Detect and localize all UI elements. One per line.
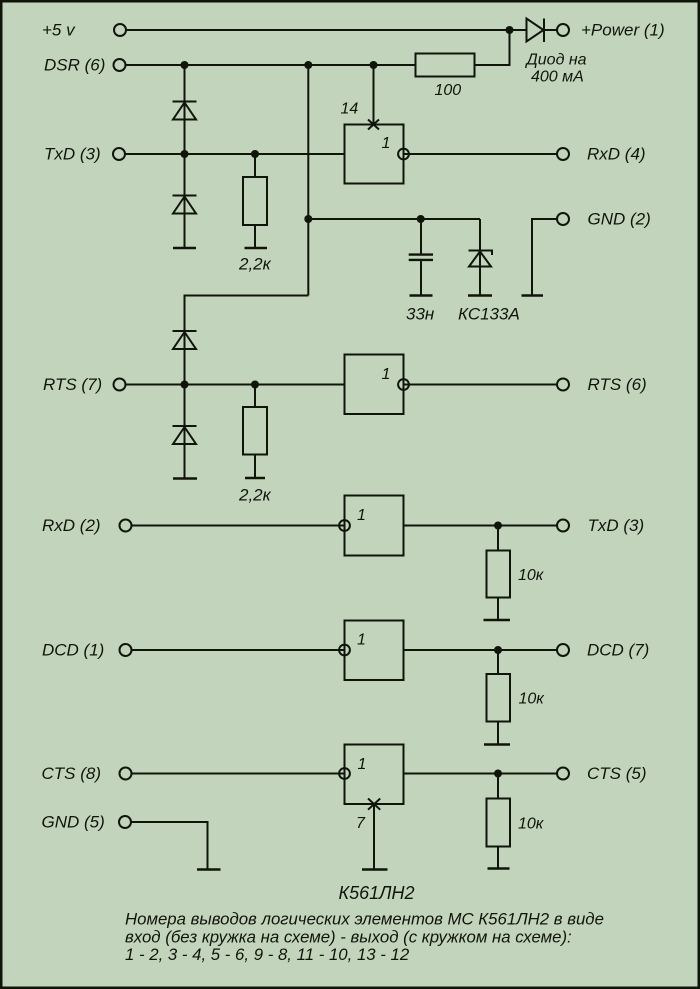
svg-text:вход (без кружка на схеме) - в: вход (без кружка на схеме) - выход (с кр… [125, 928, 572, 947]
op-amp gate U1.4 box [345, 621, 404, 681]
wire TxD to resistor R2 [254, 154, 256, 177]
wire capacitor C1 to ground [420, 261, 422, 295]
terminal +Power(1) [557, 24, 569, 36]
resistor 100 [416, 54, 475, 77]
ground bar GND(5) [197, 868, 221, 871]
svg-text:33н: 33н [406, 305, 435, 324]
svg-text:DSR (6): DSR (6) [44, 56, 105, 75]
terminal RxD(2) [120, 520, 132, 532]
resistor 2,2k lower [243, 407, 267, 455]
resistor 2,2k upper [243, 177, 267, 225]
terminal DCD(7) [557, 644, 569, 656]
terminal RxD(4) [557, 148, 569, 160]
svg-text:Диод на: Диод на [525, 52, 587, 69]
gate U1.3 input circle [339, 520, 350, 531]
op-amp gate U1.1 box [345, 125, 404, 184]
svg-text:CTS (8): CTS (8) [42, 764, 102, 783]
terminal TxD(3) right [557, 520, 569, 532]
ground bar under R5 [484, 743, 510, 746]
ground bar under R2 [245, 247, 268, 250]
wire GND(5) to ground [132, 822, 208, 869]
gate U1.5 pin7 cross [368, 799, 380, 810]
svg-text:1: 1 [357, 632, 366, 649]
terminal GND(5) [119, 816, 131, 828]
diode D5 power [527, 19, 545, 43]
ground bar under R3 [245, 477, 265, 480]
ground bar under R4 [484, 619, 511, 622]
wire through diode D3 to RTS [184, 331, 186, 385]
wire GND(2) terminal [532, 219, 557, 295]
node TxD-R2 [251, 150, 259, 158]
wire DCD(1) line [132, 649, 345, 651]
wire gate3 output to TxD(3) [404, 525, 557, 527]
wire RTS through diode D4 to ground [184, 385, 186, 479]
wire TxD line [126, 153, 345, 155]
gate U1.2 output circle [398, 379, 409, 390]
terminal CTS(8) [120, 768, 132, 780]
terminal TxD(3) left [113, 148, 125, 160]
wire pin14 riser [373, 65, 375, 125]
wire resistor 100 to +5v riser [475, 30, 510, 65]
svg-text:400 мА: 400 мА [531, 69, 584, 86]
wire resistor R2 to ground [254, 225, 256, 248]
svg-text:14: 14 [341, 101, 359, 118]
ground bar pin7 [362, 868, 388, 871]
svg-text:2,2к: 2,2к [238, 255, 272, 274]
terminal GND(2) [557, 213, 569, 225]
wire junction to resistor R4 [497, 526, 499, 551]
terminal DSR(6) [114, 59, 126, 71]
wire diode cathode to +Power [544, 29, 557, 31]
wire gate5 output to CTS(5) [404, 773, 557, 775]
svg-text:+Power (1): +Power (1) [581, 21, 665, 40]
ground bar under D2 [173, 247, 196, 250]
gate U1.4 input circle [339, 645, 350, 656]
capacitor C1 33н [409, 255, 433, 260]
node rail-riser [304, 215, 312, 223]
wire RxD(2) line [132, 525, 345, 527]
svg-text:TxD (3): TxD (3) [588, 516, 645, 535]
ground bar under zener [468, 294, 492, 297]
terminal CTS(5) [557, 768, 569, 780]
svg-text:100: 100 [435, 82, 462, 99]
node TxD-D1 [181, 150, 189, 158]
wire RTS to resistor R3 [254, 385, 256, 408]
svg-text:TxD (3): TxD (3) [44, 145, 101, 164]
wire resistor R3 to ground [254, 455, 256, 478]
terminal RTS(7) [114, 379, 126, 391]
terminal circles [113, 24, 569, 828]
svg-text:RxD (2): RxD (2) [42, 516, 101, 535]
node TxD3-R4 [494, 522, 502, 530]
gate U1.5 input circle [339, 768, 350, 779]
node CTS5-R6 [494, 770, 502, 778]
svg-text:7: 7 [356, 815, 366, 832]
ground bar under D4 [173, 477, 197, 480]
wire DSR through diode D1 to TxD [184, 65, 186, 154]
terminal +5v [114, 24, 126, 36]
svg-text:CTS (5): CTS (5) [587, 764, 647, 783]
terminal DCD(1) [120, 644, 132, 656]
ground bar under GND(2) [522, 294, 544, 297]
wire CTS(8) line [132, 773, 345, 775]
node RTS-D3 [181, 381, 189, 389]
svg-text:RxD (4): RxD (4) [587, 145, 646, 164]
wire DSR line [126, 64, 416, 66]
wire rail corner to RTS diode [185, 296, 309, 331]
wire resistor R4 to ground [497, 598, 499, 620]
wire pin7 to ground [373, 804, 375, 869]
svg-text:10к: 10к [518, 567, 545, 584]
wire resistor R6 to ground [497, 847, 499, 869]
zener diode VD КС133А [469, 251, 493, 267]
wire TxD through diode D2 to ground [184, 154, 186, 248]
gate U1.1 output circle [398, 149, 409, 160]
op-amp gate U1.5 box [345, 745, 404, 805]
ground bar under C1 [410, 294, 433, 297]
svg-text:1: 1 [357, 507, 366, 524]
op-amp gate U1.2 box [345, 355, 404, 415]
wire gate2 output to RTS(6) [404, 384, 557, 386]
wire DSR riser to supply rail [307, 65, 309, 296]
wire RTS line [126, 384, 345, 386]
node DSR-riser [304, 61, 312, 69]
node DCD7-R5 [494, 646, 502, 654]
wire +5v rail [127, 29, 510, 31]
node +5v-diode [506, 26, 514, 34]
resistor 10k CTS [487, 799, 511, 847]
wire gate4 output to DCD(7) [404, 649, 557, 651]
wire junction to resistor R6 [497, 774, 499, 799]
svg-text:1: 1 [382, 366, 391, 383]
node rail-C1 [417, 215, 425, 223]
svg-text:10к: 10к [519, 691, 546, 708]
svg-text:КС133А: КС133А [458, 305, 520, 324]
svg-text:1: 1 [382, 135, 391, 152]
resistor 10k TxD [487, 551, 511, 598]
terminal RTS(6) [557, 379, 569, 391]
wire diode anode [510, 29, 527, 31]
svg-text:К561ЛН2: К561ЛН2 [339, 883, 415, 903]
diode D2 [173, 196, 197, 214]
svg-text:GND (2): GND (2) [588, 210, 651, 229]
node RTS-R3 [251, 381, 259, 389]
wire supply rail [308, 218, 480, 220]
svg-text:GND (5): GND (5) [42, 813, 105, 832]
svg-text:1: 1 [358, 756, 367, 773]
wire zener to ground [479, 250, 481, 295]
ground bar under R6 [488, 867, 510, 870]
resistor 10k DCD [487, 674, 511, 722]
diode D4 [173, 426, 197, 444]
svg-text:RTS (7): RTS (7) [43, 375, 102, 394]
svg-text:DCD (1): DCD (1) [42, 641, 104, 660]
svg-text:Номера выводов логических элем: Номера выводов логических элементов МС К… [125, 910, 604, 929]
svg-text:RTS (6): RTS (6) [588, 375, 647, 394]
svg-text:1 - 2, 3 - 4, 5 - 6, 9 - 8, 11: 1 - 2, 3 - 4, 5 - 6, 9 - 8, 11 - 10, 13 … [125, 945, 410, 964]
diode D1 [173, 102, 197, 120]
svg-text:+5 v: +5 v [42, 21, 76, 40]
svg-text:2,2к: 2,2к [238, 486, 272, 505]
wire rail elbow to zener [479, 219, 481, 250]
node DSR-pin14 [370, 61, 378, 69]
op-amp gate U1.3 box [345, 496, 404, 556]
diode D3 [173, 331, 197, 349]
svg-text:10к: 10к [518, 816, 545, 833]
wire gate1 output to RxD(4) [404, 153, 557, 155]
svg-text:DCD (7): DCD (7) [587, 641, 649, 660]
node DSR-D1 [181, 61, 189, 69]
gate U1.1 pin14 cross [368, 120, 379, 130]
wire rail to capacitor C1 [420, 219, 422, 253]
wire resistor R5 to ground [497, 722, 499, 745]
wire junction to resistor R5 [497, 650, 499, 674]
